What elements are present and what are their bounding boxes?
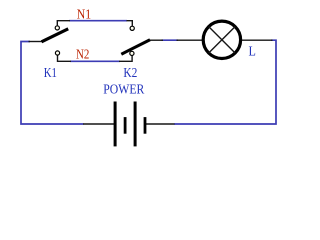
wire N2 horizontal: [70, 60, 120, 62]
svg-text:N1: N1: [77, 7, 91, 22]
battery plate long 1: [114, 102, 117, 147]
terminal circle N2 right: [130, 51, 134, 55]
terminal circle N1 right: [130, 26, 134, 30]
pin lamp left lead: [177, 39, 204, 41]
lamp X diagonal 2: [209, 27, 235, 53]
svg-text:K2: K2: [123, 66, 137, 81]
lamp L circle: [203, 21, 240, 58]
pin N2 right terminal lead: [119, 56, 132, 62]
svg-text:N2: N2: [76, 48, 89, 63]
svg-text:POWER: POWER: [103, 82, 145, 97]
lamp X diagonal 1: [209, 27, 235, 53]
switch K2 blade: [121, 40, 150, 55]
wire left vertical + bottom-left run: [21, 42, 84, 125]
wire between K2 and lamp: [162, 39, 179, 41]
terminal circle N1 left: [55, 26, 59, 30]
pin N1 left terminal lead: [57, 21, 70, 26]
battery plate long 2: [134, 102, 137, 147]
pin N1 right terminal lead: [127, 21, 133, 26]
pin lamp right lead: [242, 39, 273, 41]
switch K1 blade: [42, 29, 69, 42]
pin K1 common lead: [29, 41, 43, 43]
battery plate short 1: [124, 117, 127, 134]
terminal circle N2 left: [55, 51, 59, 55]
pin K2 common lead: [149, 39, 164, 41]
svg-text:L: L: [249, 45, 256, 60]
wire N1 horizontal: [69, 20, 127, 22]
svg-text:K1: K1: [44, 66, 57, 81]
battery plate short 2: [144, 117, 147, 134]
pin N2 left terminal lead: [58, 55, 72, 61]
pin battery left lead: [83, 123, 114, 125]
pin battery right lead: [146, 123, 175, 125]
wire bottom-right run + right vertical: [174, 40, 276, 124]
